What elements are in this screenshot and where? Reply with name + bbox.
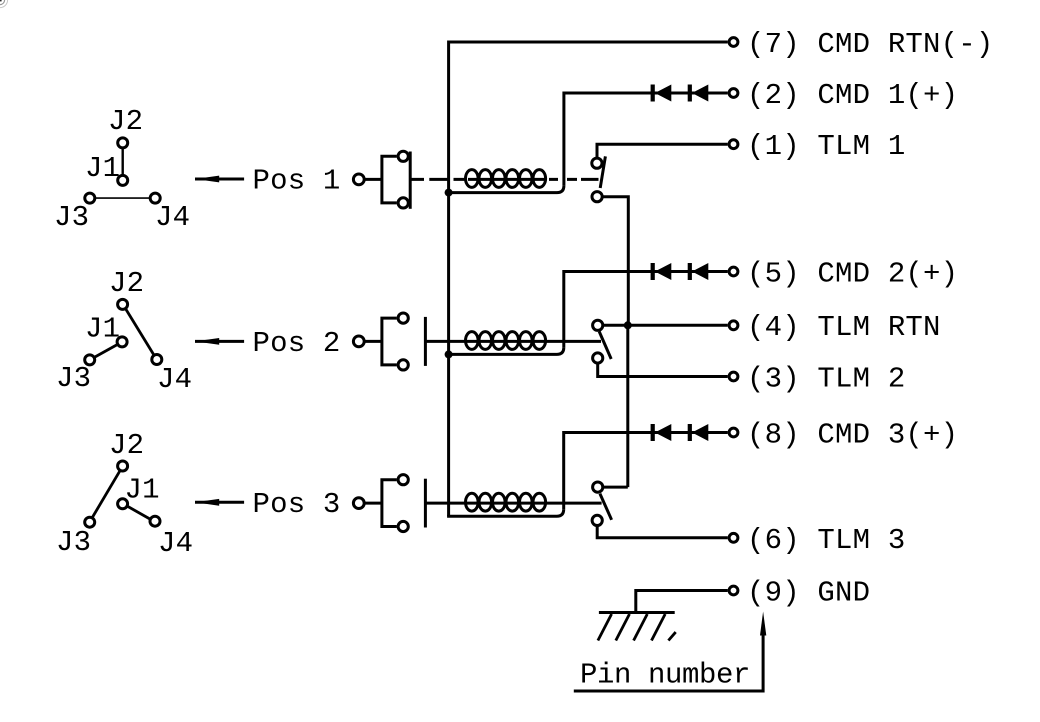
svg-text:(2) CMD 1(+): (2) CMD 1(+)	[747, 79, 958, 112]
node J4 (pos3)	[150, 516, 160, 526]
wire J1-J4 closed (pos3)	[127, 506, 151, 520]
diode CR2a	[651, 263, 672, 280]
node P1 contact b	[398, 198, 408, 208]
svg-text:(5) CMD 2(+): (5) CMD 2(+)	[747, 258, 958, 291]
wire CMD 2(+) line	[564, 272, 728, 348]
node pushbutton terminal P3	[353, 498, 364, 509]
pushbutton bracket P3	[382, 480, 397, 527]
node terminal (5)	[729, 267, 738, 276]
node J4 (pos2)	[152, 355, 162, 365]
node junction dot K2	[445, 350, 453, 358]
coil K3	[466, 493, 546, 511]
wire CMD 3(+) line	[564, 433, 728, 510]
node P3 contact a	[398, 475, 408, 485]
svg-text:(4) TLM RTN: (4) TLM RTN	[747, 311, 941, 344]
wire J2-J4 closed (pos2)	[125, 308, 154, 355]
node pushbutton terminal P1	[353, 174, 364, 185]
svg-text:J2: J2	[109, 267, 144, 300]
diode CR3b	[688, 424, 709, 441]
node J1 (pos3)	[118, 499, 128, 509]
svg-text:J2: J2	[108, 105, 143, 138]
state diagram Pos 2	[85, 299, 162, 365]
diode CR1b	[688, 85, 709, 102]
wire coil K1 bottom to riser	[449, 186, 564, 193]
corner artifact	[0, 0, 8, 8]
svg-text:J4: J4	[155, 201, 190, 234]
svg-text:(6) TLM 3: (6) TLM 3	[747, 524, 905, 557]
diode CR1a	[651, 85, 672, 102]
node terminal (6)	[729, 533, 738, 542]
svg-text:Pin number: Pin number	[580, 659, 750, 692]
svg-text:J3: J3	[54, 201, 89, 234]
svg-text:(1) TLM 1: (1) TLM 1	[747, 130, 905, 163]
svg-text:J2: J2	[109, 429, 144, 462]
ground	[598, 613, 676, 641]
wire CMD 1(+) line	[564, 93, 728, 186]
pushbutton bar P3 (released)	[424, 479, 427, 528]
diode CR3a	[651, 424, 672, 441]
mech link K3	[425, 502, 601, 505]
node J3 (pos1)	[85, 193, 95, 203]
pin number leader arrow	[574, 635, 763, 691]
node P3 contact b	[398, 521, 408, 531]
switch S3 blade	[600, 494, 612, 520]
pushbutton bracket P2	[382, 318, 397, 365]
node junction dot bus B	[624, 321, 632, 329]
wire J1-J3 closed (pos2)	[94, 344, 118, 358]
svg-text:J3: J3	[56, 362, 91, 395]
wire P3 stub	[364, 502, 382, 505]
wire P1 stub	[364, 178, 382, 181]
svg-text:J3: J3	[56, 526, 91, 559]
wire GND line	[636, 591, 728, 613]
node J2 (pos1)	[118, 138, 128, 148]
svg-text:J1: J1	[125, 474, 160, 507]
node terminal (8)	[729, 428, 738, 437]
wire coil K3 bottom to riser	[447, 509, 564, 516]
switch S3 contact top	[593, 482, 603, 492]
pos1 arrow	[195, 178, 244, 181]
node terminal (4)	[729, 321, 738, 330]
pos2 arrow	[195, 340, 244, 343]
wire S3 bottom contact to TLM 3	[597, 526, 728, 538]
node terminal (1)	[729, 140, 738, 149]
switch S1 contact bottom	[592, 192, 602, 202]
node pushbutton terminal P2	[353, 336, 364, 347]
node P2 contact a	[398, 313, 408, 323]
wire S2 bottom contact to TLM 2	[598, 363, 728, 376]
pos3 arrow	[195, 501, 244, 504]
diode CR2b	[688, 263, 709, 280]
svg-text:J1: J1	[85, 313, 120, 346]
node terminal (3)	[729, 372, 738, 381]
svg-text:Pos 1: Pos 1	[253, 165, 341, 198]
wire S1 bottom contact to bus B	[602, 197, 628, 326]
wire J3-J4 closed (pos1)	[95, 197, 151, 199]
switch S1 contact top	[592, 158, 602, 168]
node J2 (pos2)	[118, 299, 128, 309]
svg-text:J4: J4	[157, 363, 192, 396]
svg-text:J4: J4	[158, 527, 193, 560]
wire J1-J2 closed (pos1)	[121, 148, 123, 176]
svg-text:Pos 3: Pos 3	[253, 488, 341, 521]
svg-text:(9) GND: (9) GND	[747, 577, 870, 610]
switch S2 blade	[599, 332, 611, 360]
node J1 (pos2)	[117, 337, 127, 347]
pushbutton bar P2 (released)	[424, 317, 427, 366]
wire coil K2 bottom to riser	[449, 347, 564, 354]
wire bus B lower	[626, 325, 629, 487]
switch S2 contact top	[593, 320, 603, 330]
node J3 (pos2)	[85, 355, 95, 365]
svg-text:(8) CMD 3(+): (8) CMD 3(+)	[747, 419, 958, 452]
wire J2-J3 closed (pos3)	[92, 470, 120, 518]
pushbutton bar P1 (engaged)	[409, 152, 412, 209]
svg-text:Pos 2: Pos 2	[253, 327, 341, 360]
node J2 (pos3)	[118, 461, 128, 471]
svg-text:(7) CMD RTN(-): (7) CMD RTN(-)	[747, 28, 993, 61]
wire P2 stub	[364, 340, 382, 343]
coil K1	[466, 170, 546, 188]
node terminal (9)	[729, 586, 738, 595]
node P2 contact b	[398, 360, 408, 370]
node J1 (pos1)	[118, 175, 128, 185]
state diagram Pos 3	[85, 461, 160, 527]
node J3 (pos3)	[85, 517, 95, 527]
switch S1 blade	[600, 156, 605, 188]
mech link K2	[425, 340, 601, 343]
coil K2	[466, 332, 546, 350]
mech dashed link K1	[410, 178, 598, 181]
wire S3 top contact to bus B	[603, 486, 628, 489]
svg-text:(3) TLM 2: (3) TLM 2	[747, 363, 905, 396]
wire CMD RTN bus (net from pin 7 down to coil 3)	[449, 42, 728, 516]
switch S3 contact bottom	[592, 515, 602, 525]
wire TLM RTN line	[603, 324, 728, 327]
node terminal (2)	[729, 89, 738, 98]
node J4 (pos1)	[150, 193, 160, 203]
switch S2 contact bottom	[593, 353, 603, 363]
wire TLM 1 line	[597, 144, 728, 157]
svg-text:J1: J1	[85, 152, 120, 185]
pushbutton bracket P1	[382, 156, 397, 203]
node P1 contact a	[398, 151, 408, 161]
node terminal (7)	[729, 38, 738, 47]
node junction dot K1	[445, 189, 453, 197]
state diagram Pos 1	[85, 138, 160, 203]
